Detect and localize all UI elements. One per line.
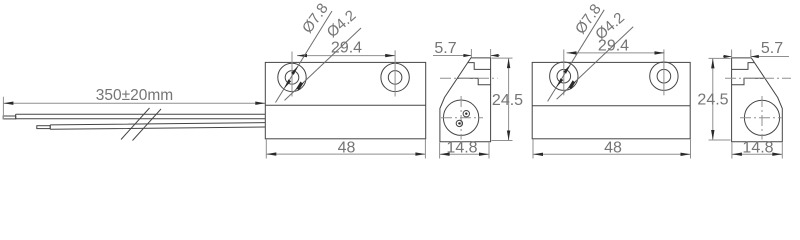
dimension 14.8 B	[732, 139, 782, 158]
side A wire hole 1	[463, 111, 469, 117]
svg-text:14.8: 14.8	[742, 139, 773, 156]
dimension 350±20mm	[3, 87, 265, 120]
side A terminal steps	[457, 63, 490, 85]
side view A outline	[440, 58, 491, 142]
dimension 29.4 B	[567, 37, 665, 54]
svg-text:48: 48	[604, 140, 622, 157]
dimension 29.4 A	[297, 40, 395, 58]
dimension 5.7 B	[723, 40, 789, 58]
hole B1	[550, 49, 578, 95]
dimension 24.5 B	[697, 58, 730, 140]
leader diameter 4.2 B	[557, 9, 634, 99]
svg-text:48: 48	[338, 139, 356, 156]
side B terminal steps	[732, 63, 765, 85]
leader diameter 7.8 B	[548, 1, 605, 101]
svg-text:350±20mm: 350±20mm	[96, 87, 173, 104]
dimension 48 A	[266, 139, 425, 158]
hole A1	[278, 52, 306, 97]
hole B2	[650, 49, 678, 95]
front view body B	[532, 62, 690, 138]
cable break marks	[121, 108, 161, 141]
hole A2	[381, 50, 409, 96]
dimension 48 B	[533, 139, 691, 158]
side A hole axis centerline	[440, 77, 498, 79]
side B circle	[740, 96, 782, 140]
front view body A	[265, 62, 425, 138]
side A wire hole 2	[456, 120, 462, 126]
leader diameter 7.8 A	[276, 0, 333, 102]
svg-text:24.5: 24.5	[697, 92, 728, 109]
side view B outline	[732, 58, 783, 142]
side B hole axis centerline	[725, 77, 791, 79]
side A circle	[441, 96, 483, 140]
wire upper lead	[3, 114, 265, 119]
svg-text:24.5: 24.5	[492, 92, 523, 109]
dimension 24.5 A	[492, 58, 524, 140]
dimension 14.8 A	[440, 139, 489, 158]
wire lower lead	[37, 123, 265, 130]
dimension 5.7 A	[433, 40, 500, 58]
leader diameter 4.2 A	[285, 7, 362, 100]
svg-text:5.7: 5.7	[434, 40, 456, 57]
svg-text:5.7: 5.7	[761, 40, 783, 57]
svg-text:14.8: 14.8	[446, 139, 477, 156]
